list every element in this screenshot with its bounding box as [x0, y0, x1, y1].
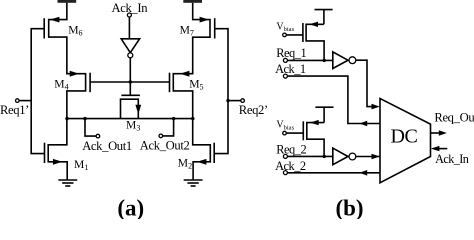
svg-text:M2: M2: [178, 157, 192, 171]
svg-text:M1: M1: [74, 158, 88, 172]
svg-text:Req_Out: Req_Out: [434, 111, 474, 125]
svg-text:M7: M7: [180, 23, 194, 37]
svg-text:Ack_2: Ack_2: [275, 159, 306, 173]
svg-text:Vbias: Vbias: [276, 21, 294, 33]
svg-text:Req_1: Req_1: [276, 46, 306, 60]
svg-text:DC: DC: [390, 125, 417, 147]
svg-text:M6: M6: [68, 23, 82, 37]
svg-text:(a): (a): [117, 196, 144, 220]
svg-text:Ack_In: Ack_In: [112, 1, 149, 15]
svg-text:M4: M4: [54, 77, 68, 91]
svg-text:Vbias: Vbias: [276, 120, 294, 132]
svg-text:M5: M5: [189, 77, 203, 91]
svg-text:M3: M3: [126, 119, 140, 133]
svg-text:(b): (b): [335, 196, 363, 220]
svg-text:Req1’: Req1’: [0, 103, 29, 117]
svg-text:Req_2: Req_2: [276, 142, 306, 156]
svg-text:Ack_Out2: Ack_Out2: [140, 138, 190, 152]
svg-text:Ack_1: Ack_1: [275, 62, 306, 76]
svg-text:Ack_In: Ack_In: [435, 152, 469, 166]
svg-text:Ack_Out1: Ack_Out1: [82, 139, 132, 153]
svg-text:Req2’: Req2’: [239, 103, 268, 117]
